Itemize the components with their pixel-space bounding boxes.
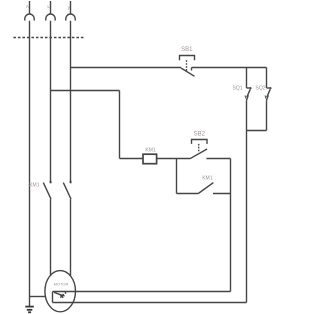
svg-text:MOTOR: MOTOR xyxy=(54,282,69,287)
wire control tap from phase B xyxy=(51,90,120,92)
wire phase A top lead xyxy=(29,1,31,14)
wire coil feed xyxy=(120,158,144,160)
wire phase C upper vertical xyxy=(70,21,72,181)
wire KM1 aux to right vertical xyxy=(213,193,231,195)
wire phase B lower vertical to motor xyxy=(50,199,52,276)
wire control top line (left of SB1) xyxy=(71,67,182,69)
wire bottom pair bottom run xyxy=(53,302,247,304)
svg-text:KM1: KM1 xyxy=(29,183,40,189)
limit switch SQ2 contact xyxy=(265,87,272,100)
centrifugal switch contact xyxy=(54,292,66,298)
wire junction drop to KM1 aux xyxy=(176,159,178,194)
wire tap vertical drop xyxy=(119,91,121,159)
wire coil to SB2 xyxy=(157,158,190,160)
contactor KM1 main contact pole B xyxy=(43,181,51,199)
svg-text:SB1: SB1 xyxy=(181,47,193,53)
wire control top line (right of SB1) xyxy=(192,67,267,69)
svg-text:SB2: SB2 xyxy=(194,131,206,137)
svg-text:SQ1: SQ1 xyxy=(232,86,242,92)
wire right-side long vertical xyxy=(246,131,248,303)
svg-text:KM1: KM1 xyxy=(202,176,213,182)
connector plug-socket XP1 xyxy=(25,14,35,21)
wire SQ1 branch lower xyxy=(246,100,248,130)
wire SB2 to right vertical xyxy=(206,158,230,160)
wire SQ2 branch lower xyxy=(266,100,268,130)
limit switch SQ1 contact xyxy=(245,87,252,100)
svg-text:SQ2: SQ2 xyxy=(255,86,265,92)
pushbutton SB2 (NO start) xyxy=(190,140,207,159)
motor M circle xyxy=(45,271,76,312)
connector plug-socket XP3 xyxy=(66,14,76,21)
wire bottom pair top run xyxy=(53,291,231,293)
wire SQ parallel bottom bus xyxy=(247,130,267,132)
auxiliary contact KM1 (self latch) xyxy=(177,183,214,194)
wire phase A vertical xyxy=(29,21,31,297)
wire latch right vertical xyxy=(230,159,232,292)
wire phase C top lead xyxy=(70,1,72,14)
wire motor to ground xyxy=(30,296,46,298)
switch linkage dashed line xyxy=(13,37,84,39)
connector plug-socket XP2 xyxy=(46,14,56,21)
svg-text:A: A xyxy=(26,4,29,9)
pushbutton SB1 (NC stop) xyxy=(180,56,195,77)
centrifugal switch box left edge xyxy=(52,292,54,303)
ground symbol xyxy=(25,307,34,313)
wire phase C lower vertical to motor xyxy=(70,199,72,276)
ground stub xyxy=(29,297,31,307)
svg-text:KM1: KM1 xyxy=(145,147,156,153)
wire phase B upper vertical xyxy=(50,21,52,181)
wire SQ1 branch upper xyxy=(246,68,248,89)
wire SQ2 branch upper xyxy=(266,68,268,89)
contactor KM1 main contact pole C xyxy=(63,181,71,199)
coil KM1 xyxy=(143,154,157,164)
wire phase B top lead xyxy=(50,1,52,14)
